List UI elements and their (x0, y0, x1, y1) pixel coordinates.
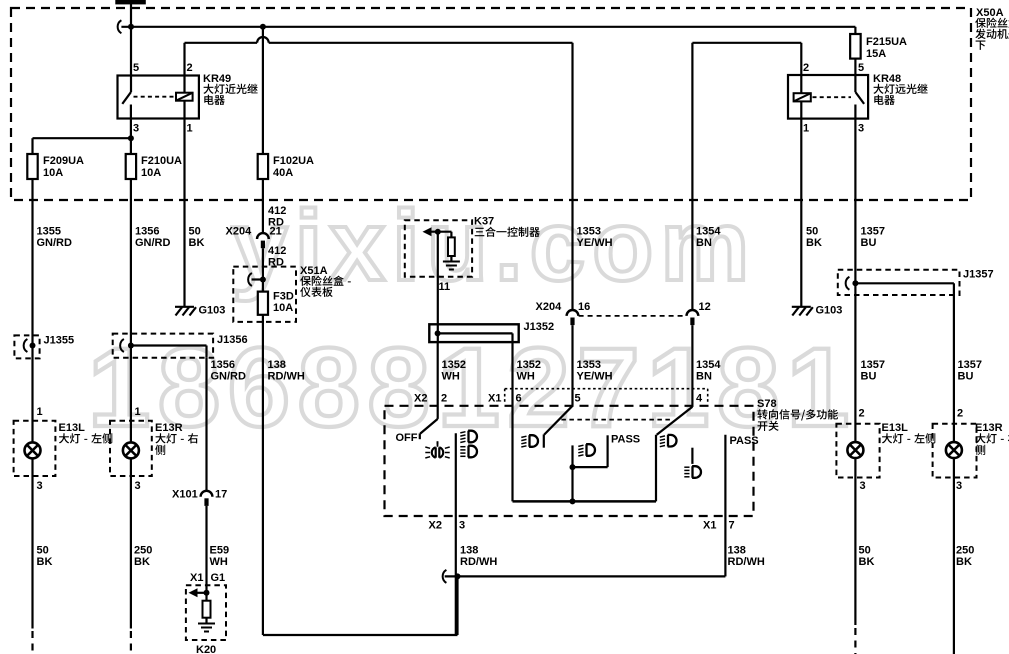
svg-text:6: 6 (516, 393, 522, 405)
svg-text:1357: 1357 (861, 359, 885, 371)
wire 1356 GN/RD (131, 200, 171, 346)
svg-text:X204: X204 (226, 226, 253, 238)
wire 138 RD/WH from X2 3 (456, 516, 498, 576)
splice J1357 (838, 269, 994, 296)
svg-text:5: 5 (133, 62, 139, 74)
wire busbar to KR49 pin5 (130, 4, 132, 76)
S78 position lamp contact icon (425, 441, 449, 458)
svg-text:PASS: PASS (611, 434, 640, 446)
svg-text:2: 2 (441, 393, 447, 405)
wire 1352 WH left (438, 324, 466, 406)
switch S78 boundary (385, 406, 754, 516)
svg-text:3: 3 (459, 520, 465, 532)
svg-text:J1356: J1356 (217, 334, 248, 346)
label E13L right (882, 422, 936, 444)
svg-text:J1357: J1357 (963, 269, 994, 281)
svg-text:PASS: PASS (730, 435, 759, 447)
label E13L left (59, 422, 113, 444)
wire 1353 YE/WH labels (577, 226, 613, 250)
svg-text:12: 12 (699, 301, 711, 313)
svg-text:1: 1 (187, 123, 193, 135)
wire 412 RD (263, 200, 286, 233)
svg-text:YE/WH: YE/WH (577, 371, 613, 383)
S78 pass line X1 7 (725, 435, 758, 516)
svg-text:BK: BK (806, 237, 822, 249)
wire 50 BK lamp E13L to bottom (33, 459, 53, 654)
svg-text:3: 3 (135, 480, 141, 492)
svg-text:OFF: OFF (396, 432, 418, 444)
S78 low beam pass contact (570, 434, 641, 471)
wire supply rail to F215UA (118, 20, 856, 34)
S78 headlamp-on contact (456, 431, 477, 516)
busbar supply (115, 0, 146, 4)
svg-text:1: 1 (37, 406, 43, 418)
svg-text:K37: K37 (474, 216, 494, 228)
label S78 (757, 398, 838, 431)
watermark (88, 190, 857, 450)
svg-text:BU: BU (958, 371, 974, 383)
fuse F210UA (126, 154, 182, 200)
svg-text:138: 138 (268, 359, 286, 371)
svg-text:250: 250 (134, 545, 152, 557)
wire KR49 coil rail 1353 feed (185, 37, 573, 310)
svg-text:17: 17 (215, 489, 227, 501)
wire 250 BK lamp E13R to bottom (131, 459, 152, 654)
connector X204 pin 12 (687, 301, 711, 325)
svg-text:F215UA: F215UA (866, 36, 907, 48)
svg-text:2: 2 (187, 62, 193, 74)
svg-text:E13L: E13L (882, 422, 909, 434)
svg-text:138: 138 (728, 545, 746, 557)
label X50A (975, 7, 1009, 50)
fuse F3D (258, 291, 294, 315)
svg-text:10A: 10A (43, 167, 63, 179)
svg-text:RD/WH: RD/WH (728, 556, 765, 568)
wire KR49 pin3 junction (33, 119, 134, 155)
svg-text:G103: G103 (816, 305, 843, 317)
wire 1354 to S78 (692, 325, 721, 407)
S78 low beam contact icon (521, 435, 538, 447)
label E13R right (975, 422, 1009, 455)
svg-text:1356: 1356 (211, 359, 235, 371)
svg-text:WH: WH (442, 371, 460, 383)
S78 high beam contact stub (684, 448, 701, 478)
svg-text:WH: WH (517, 371, 535, 383)
S78 top pin labels (414, 393, 703, 405)
connector X204 16-12 link (579, 315, 687, 317)
svg-text:3: 3 (133, 123, 139, 135)
svg-text:5: 5 (858, 62, 864, 74)
wire 1356 GN/RD branch to X101 (207, 358, 247, 491)
svg-text:1357: 1357 (861, 226, 885, 238)
svg-text:X50A: X50A (976, 7, 1004, 19)
label E13R left (155, 422, 198, 455)
splice J1356 (113, 334, 248, 358)
splice J1352 (429, 321, 554, 342)
wire 1352 WH right (513, 333, 541, 501)
fuse F102UA (258, 27, 314, 200)
wire J1357 to lamp E13L high (855, 283, 885, 442)
splice J1355 (14, 335, 74, 359)
wire 50 BK lamp E13L high to bottom (855, 458, 874, 654)
svg-text:10A: 10A (141, 167, 161, 179)
lamp E13R high beam (933, 424, 977, 478)
svg-text:40A: 40A (273, 167, 293, 179)
wire J1356 to lamp E13R (131, 346, 141, 443)
wire 138 RD/WH to X1 7 (725, 516, 764, 576)
fuse box X50A boundary (11, 8, 971, 200)
svg-text:50: 50 (189, 226, 201, 238)
connector X204 pin 21 (226, 226, 287, 269)
lamp E13L low beam (14, 421, 56, 476)
svg-text:BU: BU (861, 371, 877, 383)
S78 OFF switch blade (396, 406, 438, 444)
svg-text:X2: X2 (429, 520, 442, 532)
svg-text:KR48: KR48 (873, 73, 901, 85)
svg-text:1357: 1357 (958, 359, 982, 371)
svg-text:G1: G1 (211, 572, 226, 584)
label X51A (300, 265, 351, 297)
svg-text:412: 412 (268, 205, 286, 217)
wire 1355 GN/RD (33, 200, 73, 346)
svg-text:3: 3 (37, 480, 43, 492)
S78 high beam blade (656, 407, 692, 502)
fuse F215UA (850, 34, 907, 75)
svg-text:E59: E59 (210, 545, 230, 557)
svg-text:3: 3 (956, 480, 962, 492)
KR48 pin labels (803, 62, 864, 135)
svg-text:50: 50 (806, 226, 818, 238)
wire 1357 BU (855, 119, 885, 284)
wire 138 RD/WH left run (263, 315, 305, 635)
svg-text:KR49: KR49 (203, 73, 231, 85)
svg-text:X204: X204 (536, 301, 563, 313)
wire J1357 branch to lamp E13R high (954, 295, 982, 442)
svg-text:yixiu.com: yixiu.com (232, 190, 756, 302)
module K20 (186, 585, 226, 654)
label KR48 (873, 73, 928, 105)
svg-text:X101: X101 (172, 489, 198, 501)
svg-text:WH: WH (210, 556, 228, 568)
splice inside X51A (248, 248, 266, 291)
svg-text:BK: BK (859, 556, 875, 568)
svg-text:250: 250 (956, 545, 974, 557)
svg-text:1353: 1353 (577, 226, 601, 238)
svg-text:G103: G103 (199, 305, 226, 317)
wire K37 pin 11 to J1352 (438, 232, 450, 325)
svg-text:E13R: E13R (155, 422, 183, 434)
svg-text:10A: 10A (273, 302, 293, 314)
svg-text:BK: BK (189, 237, 205, 249)
svg-text:2: 2 (957, 408, 963, 420)
svg-text:1353: 1353 (577, 359, 601, 371)
relay KR48 (788, 75, 868, 119)
svg-text:50: 50 (37, 545, 49, 557)
svg-text:S78: S78 (757, 398, 777, 410)
wire 1353 to S78 (573, 325, 613, 406)
svg-text:1352: 1352 (517, 359, 541, 371)
svg-text:BK: BK (37, 556, 53, 568)
svg-text:5: 5 (575, 393, 581, 405)
svg-text:BN: BN (696, 371, 712, 383)
connector X101 pin 17 (172, 489, 227, 506)
KR49 pin labels (133, 62, 193, 135)
wire 1354 BN labels (696, 226, 721, 250)
wire 50 BK KR49 pin1 (185, 119, 205, 307)
svg-text:1355: 1355 (37, 226, 61, 238)
fuse F209UA (27, 154, 84, 200)
S78 mechanical link (561, 419, 671, 421)
svg-text:BK: BK (134, 556, 150, 568)
svg-text:1352: 1352 (442, 359, 466, 371)
svg-text:X1: X1 (190, 572, 203, 584)
S78 common bottom bar (513, 498, 657, 504)
svg-text:4: 4 (696, 393, 703, 405)
svg-text:X1: X1 (703, 520, 716, 532)
svg-text:1354: 1354 (696, 226, 721, 238)
svg-text:3: 3 (860, 480, 866, 492)
svg-text:2: 2 (859, 408, 865, 420)
wire 138 RD/WH horizontal run (443, 570, 726, 635)
ground G103 right (792, 305, 843, 317)
svg-text:21: 21 (270, 226, 282, 238)
label KR49 (203, 73, 258, 105)
wire E59 WH (190, 506, 229, 593)
svg-text:2: 2 (803, 62, 809, 74)
svg-text:RD/WH: RD/WH (460, 556, 497, 568)
svg-text:YE/WH: YE/WH (577, 237, 613, 249)
S78 bottom pin labels (429, 520, 735, 532)
fuse box X51A boundary (233, 267, 296, 322)
wire 50 BK KR48 pin1 (801, 119, 822, 306)
svg-text:11: 11 (439, 281, 451, 293)
wire 138 bottom run (263, 576, 458, 635)
svg-text:3: 3 (858, 123, 864, 135)
svg-text:1354: 1354 (696, 359, 721, 371)
svg-text:J1355: J1355 (44, 335, 75, 347)
svg-text:1: 1 (803, 123, 809, 135)
svg-text:X2: X2 (414, 393, 427, 405)
svg-text:7: 7 (729, 520, 735, 532)
svg-text:F210UA: F210UA (141, 155, 182, 167)
svg-text:BU: BU (861, 237, 877, 249)
svg-text:E13L: E13L (59, 422, 86, 434)
svg-text:1: 1 (135, 406, 141, 418)
ground G103 left (175, 305, 225, 317)
svg-text:E13R: E13R (975, 422, 1003, 434)
connector X204 pin 16 (536, 301, 591, 325)
controller K37 (405, 220, 472, 277)
svg-text:50: 50 (859, 545, 871, 557)
lamp E13L high beam (836, 424, 879, 478)
svg-text:GN/RD: GN/RD (37, 237, 73, 249)
svg-text:RD/WH: RD/WH (268, 371, 305, 383)
wire 250 BK lamp E13R high to bottom (954, 458, 974, 654)
S78 low beam common riser (571, 467, 573, 501)
S78 low beam blade (544, 406, 573, 448)
svg-text:412: 412 (268, 245, 286, 257)
svg-text:X1: X1 (488, 393, 501, 405)
svg-text:15A: 15A (866, 48, 886, 60)
svg-text:F102UA: F102UA (273, 155, 314, 167)
svg-text:BK: BK (956, 556, 972, 568)
wire J1355 to lamp E13L (33, 346, 43, 443)
S78 X1 pin group dotted box (505, 389, 708, 404)
svg-text:1356: 1356 (135, 226, 159, 238)
svg-text:F3D: F3D (273, 291, 294, 303)
svg-text:BN: BN (696, 237, 712, 249)
label K37 (474, 216, 540, 237)
svg-text:X51A: X51A (300, 265, 328, 277)
relay KR49 (118, 76, 199, 119)
lamp E13R low beam (110, 421, 152, 476)
svg-text:16: 16 (578, 301, 590, 313)
svg-text:138: 138 (460, 545, 478, 557)
svg-text:F209UA: F209UA (43, 155, 84, 167)
svg-text:J1352: J1352 (524, 321, 555, 333)
svg-text:GN/RD: GN/RD (135, 237, 171, 249)
wire 1354 KR48 coil rail (692, 43, 801, 310)
svg-text:GN/RD: GN/RD (211, 371, 247, 383)
svg-text:K20: K20 (196, 644, 216, 654)
